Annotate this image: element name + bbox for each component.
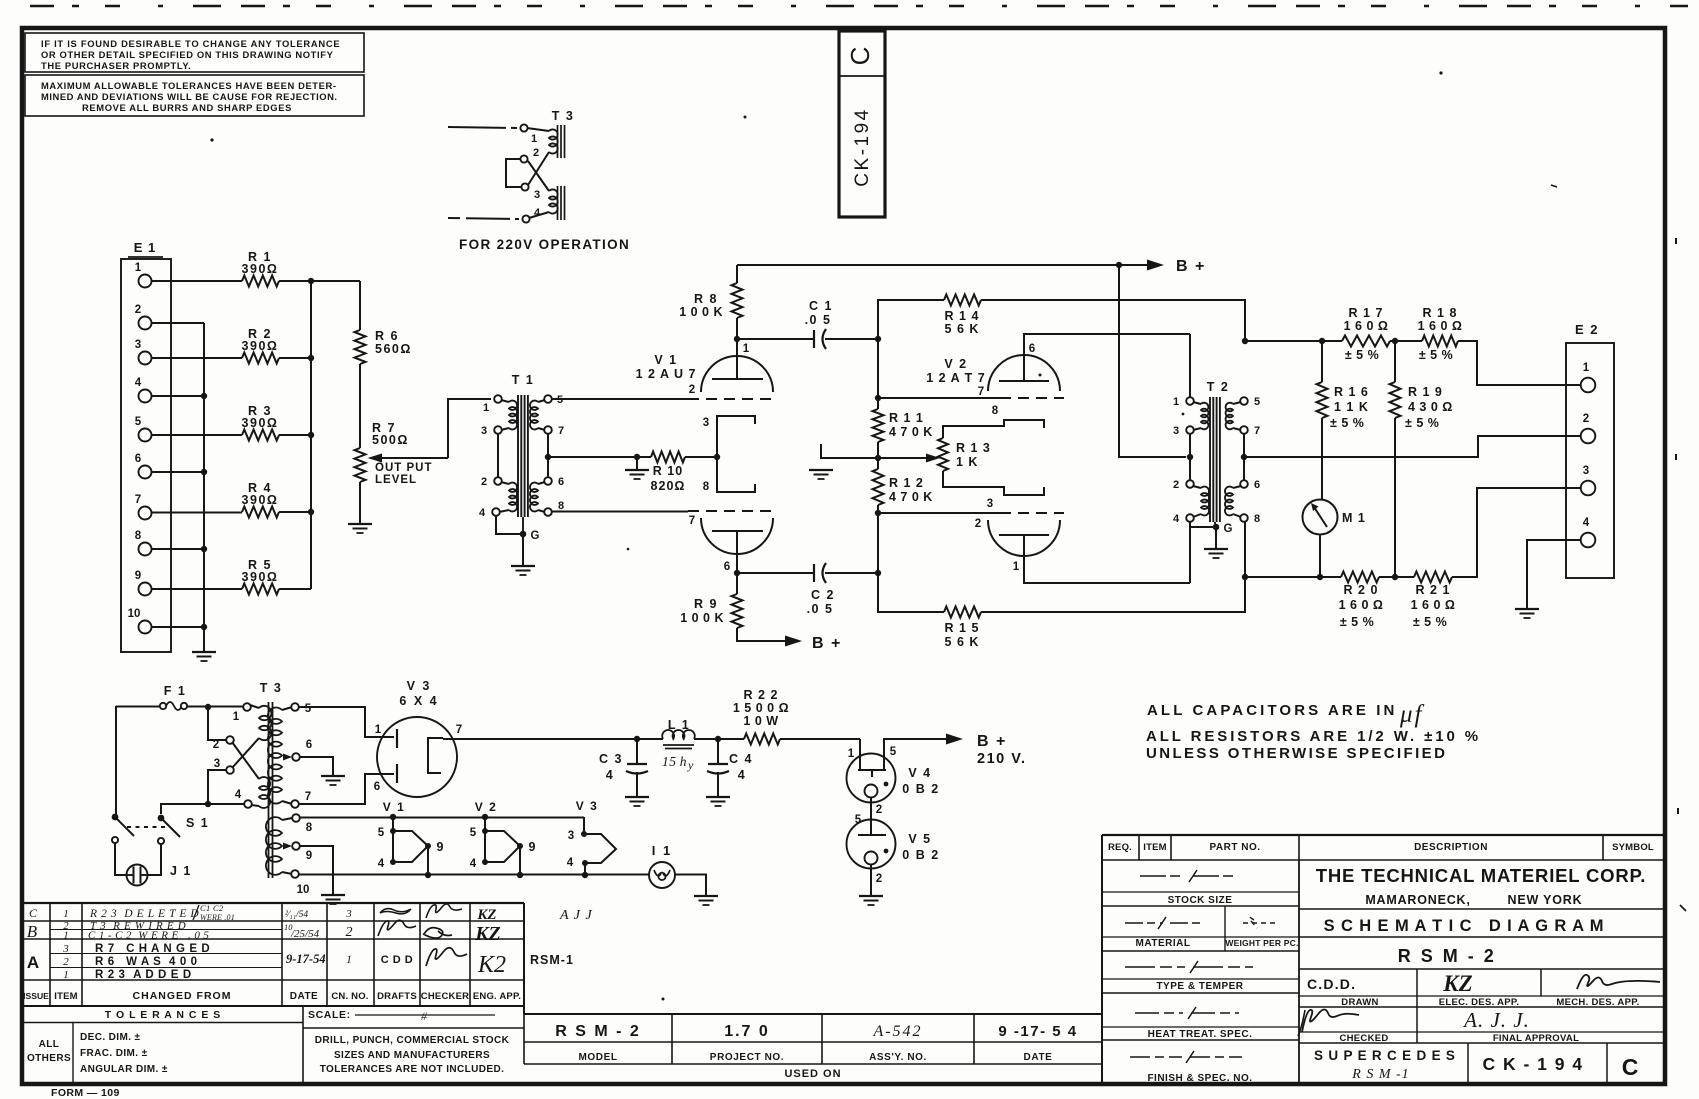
wire <box>877 505 879 513</box>
T3 primary winding lower <box>549 189 558 213</box>
wire <box>877 442 879 458</box>
svg-text:WERE .01: WERE .01 <box>200 913 235 922</box>
svg-text:3: 3 <box>481 425 487 437</box>
junction node V2 upper grid <box>875 395 881 401</box>
svg-text:R 1 3: R 1 3 <box>956 441 991 455</box>
wire <box>311 280 360 282</box>
V3 plate 1 <box>396 729 398 748</box>
svg-text:R S M -1: R S M -1 <box>1351 1067 1409 1082</box>
T3 HV secondary winding <box>282 707 292 710</box>
jumper wire T2 3-2 <box>1189 434 1191 481</box>
wire <box>115 843 126 875</box>
tube V3 envelope <box>377 717 457 797</box>
svg-text:FORM — 109: FORM — 109 <box>51 1087 120 1099</box>
svg-text:UNLESS OTHERWISE SPECIFIED: UNLESS OTHERWISE SPECIFIED <box>1146 745 1447 762</box>
svg-text:2: 2 <box>63 956 69 968</box>
svg-text:390Ω: 390Ω <box>242 416 279 430</box>
svg-text:C: C <box>845 47 875 66</box>
V1 cathodes (pins 3,8) <box>717 416 755 457</box>
wire <box>279 357 311 359</box>
svg-text:2: 2 <box>481 476 487 488</box>
svg-text:TOLERANCES ARE NOT INCLUDED: TOLERANCES ARE NOT INCLUDED. <box>320 1064 505 1075</box>
svg-text:R 1 9: R 1 9 <box>1408 385 1443 399</box>
wire: even-terminal ground bus <box>152 322 205 324</box>
svg-text:V 3: V 3 <box>576 799 599 813</box>
svg-text:10: 10 <box>128 608 141 620</box>
junction <box>308 355 314 361</box>
terminal T2-3 <box>1186 426 1194 434</box>
wire <box>279 280 311 282</box>
V5 envelope <box>847 820 896 869</box>
svg-text:5: 5 <box>378 827 385 839</box>
resistor R16 <box>1321 341 1323 382</box>
ground <box>348 523 372 525</box>
capacitor C1 <box>737 338 814 340</box>
V2 lower triode grid (pin 2) <box>878 512 1000 514</box>
svg-text:5: 5 <box>135 416 142 428</box>
svg-text:1 0 0 K: 1 0 0 K <box>679 305 723 319</box>
jumper wire T2 7-6 <box>1243 434 1245 481</box>
wire: E2-4 to ground <box>1527 540 1581 609</box>
terminal T3-3 <box>226 766 234 774</box>
wire <box>427 846 429 875</box>
svg-text:3: 3 <box>534 189 540 201</box>
wire: output center line to E2-2 <box>1244 436 1581 457</box>
wire: R13 bottom to V2 cathode pin 3 <box>943 471 1044 495</box>
svg-text:R 7 C H A N G E D: R 7 C H A N G E D <box>95 943 210 955</box>
svg-text:4: 4 <box>479 507 486 519</box>
svg-text:1 0 W: 1 0 W <box>743 714 778 728</box>
resistor R18 <box>1422 336 1458 347</box>
wire: R15 to T2 pin 8 riser <box>981 521 1245 612</box>
junction <box>1317 574 1323 580</box>
wire: R21 to E2-3 <box>1452 488 1581 577</box>
junction node R10/ground <box>634 454 640 460</box>
resistor R10 <box>685 456 717 458</box>
terminal T3-6 <box>292 753 300 761</box>
wire <box>152 395 205 397</box>
svg-text:8: 8 <box>135 530 142 542</box>
svg-text:ENG. APP.: ENG. APP. <box>473 991 521 1002</box>
terminal T3-7 <box>291 800 299 808</box>
svg-text:7: 7 <box>978 386 984 398</box>
type & temper cell <box>1125 961 1253 973</box>
svg-text:PART NO.: PART NO. <box>1209 842 1260 853</box>
resistor R9 <box>736 576 738 594</box>
svg-text:9: 9 <box>306 850 312 862</box>
V2 upper triode plate pin 6 <box>999 380 1049 382</box>
T3 HV center tap arrow <box>283 754 292 761</box>
svg-text:R 2 3 A D D E D: R 2 3 A D D E D <box>95 969 192 981</box>
svg-text:REMOVE ALL BURRS AND SHARP ED: REMOVE ALL BURRS AND SHARP EDGES <box>82 102 292 113</box>
resistor R22 <box>718 738 744 740</box>
choke L1 <box>637 738 663 740</box>
junction node C3 <box>634 736 640 742</box>
resistor R15 <box>944 607 981 618</box>
svg-text:ISSUE: ISSUE <box>23 991 49 1001</box>
svg-text:B +: B + <box>977 733 1007 750</box>
svg-text:7: 7 <box>135 494 141 506</box>
wire: T3-3 drop <box>208 770 245 804</box>
svg-text:6: 6 <box>135 453 141 465</box>
svg-text:FINISH & SPEC. NO.: FINISH & SPEC. NO. <box>1147 1073 1252 1084</box>
svg-text:2: 2 <box>1173 479 1179 491</box>
svg-text:7: 7 <box>456 724 462 736</box>
ground <box>625 796 649 798</box>
svg-text:R 1 2: R 1 2 <box>889 476 924 490</box>
junction node B+ branch <box>1116 262 1122 268</box>
svg-text:C 2: C 2 <box>811 588 835 602</box>
terminal T3-1 <box>520 124 527 131</box>
potentiometer R7 <box>355 448 366 482</box>
svg-text:y: y <box>687 758 694 772</box>
capacitor C3 <box>636 739 638 764</box>
svg-text:1 2 A T 7: 1 2 A T 7 <box>926 371 985 385</box>
wire: R18 to E2-1 <box>1458 341 1581 385</box>
svg-text:8: 8 <box>1254 513 1260 525</box>
svg-text:2: 2 <box>689 384 695 396</box>
svg-text:T 1: T 1 <box>512 373 535 387</box>
svg-text:ITEM: ITEM <box>1143 842 1167 853</box>
svg-text:STOCK SIZE: STOCK SIZE <box>1168 895 1233 906</box>
ground <box>321 775 345 777</box>
svg-text:KZ: KZ <box>476 907 496 923</box>
svg-text:L 1: L 1 <box>668 718 690 732</box>
svg-text:M 1: M 1 <box>1342 511 1366 525</box>
svg-text:7: 7 <box>558 425 564 437</box>
wire <box>279 588 311 590</box>
ground <box>694 895 718 897</box>
revision table <box>22 902 524 904</box>
svg-text:C 1 - C 2 W E R E . 0 5: C 1 - C 2 W E R E . 0 5 <box>88 930 209 942</box>
junction node C2/R12 bus <box>875 570 881 576</box>
junction <box>308 509 314 515</box>
wire <box>279 511 311 513</box>
resistor R19 <box>1394 341 1396 382</box>
T2 primary winding upper <box>1193 402 1201 404</box>
V1 upper triode plate pin 1 <box>712 378 763 380</box>
ground <box>1515 608 1539 610</box>
svg-text:3: 3 <box>703 417 709 429</box>
svg-text:V 2: V 2 <box>944 357 967 371</box>
V1 lower triode grid (pin 7) <box>552 511 689 513</box>
wire <box>115 706 117 817</box>
svg-text:R 2 1: R 2 1 <box>1416 583 1451 597</box>
svg-text:3: 3 <box>1583 465 1589 477</box>
svg-text:J 1: J 1 <box>170 864 192 878</box>
wire: R13 top to V2 cathode pin 8 <box>943 420 1044 438</box>
wire <box>780 738 860 740</box>
terminal T2-2 <box>1186 480 1194 488</box>
wire: 6.3V heater rail (top) <box>300 817 585 819</box>
junction node C1/R11 bus <box>875 336 881 342</box>
T2 secondary winding lower <box>1233 486 1241 488</box>
svg-text:G: G <box>1224 523 1233 535</box>
svg-text:7: 7 <box>689 515 695 527</box>
V2 lower triode envelope <box>988 520 1060 556</box>
svg-text:NEW YORK: NEW YORK <box>1508 893 1583 907</box>
svg-text:390Ω: 390Ω <box>242 339 279 353</box>
svg-text:OUT PUT: OUT PUT <box>375 462 432 474</box>
svg-text:S C H E M A T I C D I A G R: S C H E M A T I C D I A G R A M <box>1324 917 1605 935</box>
svg-text:15 h: 15 h <box>662 754 687 769</box>
svg-text:1 6 0 Ω: 1 6 0 Ω <box>1339 598 1384 612</box>
wire: T3-6 to ground <box>300 757 334 776</box>
junction <box>517 872 523 878</box>
junction node T2 pin8 riser / bottom rail <box>1242 574 1248 580</box>
svg-text:1 5 0 0 Ω: 1 5 0 0 Ω <box>733 701 789 715</box>
junction node T1 7-6 <box>545 454 551 460</box>
svg-text:4: 4 <box>567 857 574 869</box>
title block <box>1102 834 1663 836</box>
svg-text:HEAT TREAT. SPEC.: HEAT TREAT. SPEC. <box>1148 1029 1253 1040</box>
terminal T3-4 <box>244 800 252 808</box>
svg-text:0 B 2: 0 B 2 <box>902 782 939 796</box>
svg-text:IF IT IS FOUND DESIRABLE TO CH: IF IT IS FOUND DESIRABLE TO CHANGE ANY T… <box>41 38 340 49</box>
resistor R20 <box>1341 572 1379 583</box>
svg-text:SCALE:: SCALE: <box>308 1009 351 1021</box>
V1 lower triode plate pin 6 <box>712 530 763 532</box>
wire <box>152 280 243 282</box>
svg-text:390Ω: 390Ω <box>242 262 279 276</box>
svg-text:ITEM: ITEM <box>54 991 78 1002</box>
wire <box>152 626 205 628</box>
terminal T3-8 <box>292 814 300 822</box>
svg-text:7: 7 <box>305 791 311 803</box>
resistor R12 <box>877 458 879 469</box>
svg-text:V 3: V 3 <box>407 679 432 693</box>
svg-text:3: 3 <box>1173 425 1179 437</box>
svg-text:8: 8 <box>703 481 710 493</box>
svg-text:3: 3 <box>345 908 352 920</box>
wire <box>637 456 651 458</box>
wire: junction to T3-2 <box>208 707 227 740</box>
svg-text:SIZES AND MANUFACTURERS: SIZES AND MANUFACTURERS <box>334 1050 490 1061</box>
wire: V4 pin2 to V5 pin5 <box>870 798 872 836</box>
drawn row <box>1416 969 1418 1043</box>
svg-text:5: 5 <box>470 827 477 839</box>
svg-text:DRILL, PUNCH, COMMERCIAL STOCK: DRILL, PUNCH, COMMERCIAL STOCK <box>315 1035 510 1046</box>
svg-text:R 1 4: R 1 4 <box>945 309 980 323</box>
terminal T1-6 <box>544 477 552 485</box>
svg-text:LEVEL: LEVEL <box>375 474 417 486</box>
terminal T3-5 <box>291 703 299 711</box>
svg-text:CHECKER: CHECKER <box>421 991 469 1002</box>
svg-text:CK-194: CK-194 <box>852 107 873 186</box>
svg-text:1: 1 <box>135 262 142 274</box>
junction <box>390 814 396 820</box>
junction <box>1319 338 1325 344</box>
svg-text:²⁄₁₁/54: ²⁄₁₁/54 <box>285 910 308 920</box>
svg-text:.0 5: .0 5 <box>807 602 834 616</box>
svg-text:1 1 K: 1 1 K <box>1334 400 1369 414</box>
jumper wire T1 7-6 <box>547 434 549 478</box>
svg-text:1: 1 <box>63 908 69 920</box>
svg-text:8: 8 <box>992 405 999 417</box>
svg-text:A: A <box>27 953 39 972</box>
wire: T1-5 to V1 grid pin 2 <box>552 398 689 400</box>
junction <box>201 469 207 475</box>
svg-text:4 7 0 K: 4 7 0 K <box>889 425 933 439</box>
junction <box>201 546 207 552</box>
svg-text:4: 4 <box>135 377 142 389</box>
V1 lower triode envelope <box>701 518 773 554</box>
V4 gas dot <box>884 782 889 787</box>
model/project strip <box>524 1013 1102 1015</box>
svg-text:3: 3 <box>135 339 141 351</box>
svg-text:DATE: DATE <box>290 991 318 1002</box>
svg-text:MINED AND DEVIATIONS WILL BE C: MINED AND DEVIATIONS WILL BE CAUSE FOR R… <box>41 91 338 102</box>
svg-text:± 5 %: ± 5 % <box>1413 615 1447 629</box>
crossing wire T3 coil to pin 2 <box>528 161 549 191</box>
svg-text:ALL RESISTORS ARE 1/2 W. ±1: ALL RESISTORS ARE 1/2 W. ±10 % <box>1146 728 1481 745</box>
svg-text:THE TECHNICAL MATERIEL CORP: THE TECHNICAL MATERIEL CORP. <box>1316 865 1646 886</box>
svg-text:6: 6 <box>1254 479 1260 491</box>
V1 upper triode grid (pin 2) <box>688 398 777 400</box>
material / weight cells <box>1224 906 1226 951</box>
svg-text:1: 1 <box>233 711 240 723</box>
wire: top rail <box>1245 340 1342 342</box>
wire <box>877 339 879 398</box>
T3 heater winding <box>282 818 292 820</box>
svg-text:R 9: R 9 <box>694 597 718 611</box>
terminal T1-8 <box>544 508 552 516</box>
wire <box>1394 418 1396 577</box>
svg-text:6 X 4: 6 X 4 <box>399 694 438 708</box>
svg-text:2: 2 <box>135 304 141 316</box>
svg-text:9: 9 <box>529 840 536 854</box>
svg-text:1: 1 <box>531 133 537 145</box>
svg-text:V 5: V 5 <box>908 832 931 846</box>
wire <box>152 434 243 436</box>
svg-text:7: 7 <box>1254 425 1260 437</box>
signature (checked) <box>1302 1010 1359 1033</box>
svg-text:± 5 %: ± 5 % <box>1330 416 1364 430</box>
T2 shield lead G <box>1190 522 1214 528</box>
V3 plate 6 <box>396 764 398 783</box>
svg-text:1: 1 <box>848 748 855 760</box>
wire <box>1390 340 1422 342</box>
svg-text:5 6 K: 5 6 K <box>945 635 980 649</box>
svg-text:B: B <box>27 922 38 941</box>
wire <box>519 846 521 875</box>
V3 cathode pin 7 <box>428 738 443 773</box>
svg-text:V 4: V 4 <box>908 766 931 780</box>
resistor R14 <box>944 295 981 306</box>
T2 secondary winding upper <box>1233 402 1241 404</box>
svg-text:T 3: T 3 <box>552 109 575 123</box>
svg-text:1 6 0 Ω: 1 6 0 Ω <box>1418 319 1463 333</box>
signature (mech des app) <box>1577 975 1660 989</box>
svg-text:9: 9 <box>135 570 141 582</box>
svg-text:ALL: ALL <box>39 1039 60 1050</box>
svg-text:TYPE & TEMPER: TYPE & TEMPER <box>1156 981 1243 992</box>
terminal T3-9 <box>292 842 300 850</box>
V5 cathode <box>865 852 878 865</box>
svg-text:C: C <box>29 906 38 920</box>
svg-text:MODEL: MODEL <box>578 1052 617 1063</box>
svg-text:1: 1 <box>743 343 750 355</box>
wire <box>152 548 205 550</box>
svg-text:C 1: C 1 <box>809 299 833 313</box>
ground <box>1204 548 1228 550</box>
ground <box>511 565 535 567</box>
svg-text:B +: B + <box>1176 258 1206 275</box>
resistor R6 <box>359 281 361 330</box>
V2 upper triode envelope <box>988 355 1060 391</box>
svg-text:T 3: T 3 <box>260 681 283 695</box>
junction node T2 7-6 / output <box>1241 454 1247 460</box>
svg-text:S 1: S 1 <box>186 816 209 830</box>
svg-text:R S M - 2: R S M - 2 <box>555 1023 641 1040</box>
svg-text:OTHERS: OTHERS <box>27 1053 71 1064</box>
svg-text:6: 6 <box>374 781 380 793</box>
terminal T3-10 <box>291 870 299 878</box>
svg-text:CHANGED FROM: CHANGED FROM <box>133 990 232 1002</box>
terminal T1-7 <box>544 426 552 434</box>
svg-text:C 4: C 4 <box>729 752 753 766</box>
svg-text:I 1: I 1 <box>652 843 672 858</box>
svg-text:1: 1 <box>1173 396 1179 408</box>
V5 gas dot <box>884 849 889 854</box>
wire <box>448 127 517 128</box>
ground stub at R10 <box>636 457 638 470</box>
R7 wiper arrow <box>382 457 448 459</box>
crossing wire T3 coil to pin 3 <box>528 152 549 185</box>
T1 primary winding upper <box>501 400 509 402</box>
svg-text:9-17-54: 9-17-54 <box>286 952 326 966</box>
wire: R14 to T2 pin 5 riser <box>981 300 1245 339</box>
svg-text:10: 10 <box>297 884 310 896</box>
wire: V5 pin 2 to ground <box>870 865 872 897</box>
svg-text:1: 1 <box>63 969 69 981</box>
svg-text:4: 4 <box>1173 513 1180 525</box>
note box: maximum allowable tolerances notice <box>25 75 364 116</box>
wire <box>1119 264 1148 266</box>
svg-text:MATERIAL: MATERIAL <box>1136 938 1191 949</box>
T3 primary winding upper <box>250 705 259 708</box>
wire <box>1319 535 1321 578</box>
svg-text:MAXIMUM ALLOWABLE TOLERANCES H: MAXIMUM ALLOWABLE TOLERANCES HAVE BEEN D… <box>41 80 337 91</box>
svg-text:WEIGHT PER PC.: WEIGHT PER PC. <box>1225 938 1298 948</box>
svg-text:C1 C2: C1 C2 <box>200 903 224 913</box>
svg-text:390Ω: 390Ω <box>242 570 279 584</box>
svg-text:DATE: DATE <box>1024 1052 1053 1063</box>
wire <box>694 738 718 740</box>
heater tap arrow <box>283 843 292 850</box>
svg-text:R 1 6: R 1 6 <box>1334 385 1369 399</box>
svg-text:1 6 0 Ω: 1 6 0 Ω <box>1344 319 1389 333</box>
resistor R17 <box>1342 336 1390 347</box>
V1 upper triode envelope <box>701 356 773 392</box>
svg-text:4 7 0 K: 4 7 0 K <box>889 490 933 504</box>
junction node V1 plate/C2/R9 <box>734 570 740 576</box>
V2 upper triode grid (pin 7) <box>878 397 1000 399</box>
svg-text:G: G <box>531 530 540 542</box>
svg-text:± 5 %: ± 5 % <box>1405 416 1439 430</box>
wire: T3-7 to V3 plate 6 <box>299 774 395 804</box>
wire <box>825 338 878 340</box>
svg-text:9 -17- 5 4: 9 -17- 5 4 <box>998 1023 1077 1040</box>
resistor R21 <box>1414 572 1452 583</box>
terminal T2-8 <box>1240 514 1248 522</box>
junction node V2 lower grid <box>875 510 881 516</box>
potentiometer R13 <box>878 457 926 459</box>
svg-text:R 8: R 8 <box>694 292 718 306</box>
svg-text:2: 2 <box>975 518 981 530</box>
junction <box>308 278 314 284</box>
wire: V3 cathode to filter <box>443 738 637 740</box>
